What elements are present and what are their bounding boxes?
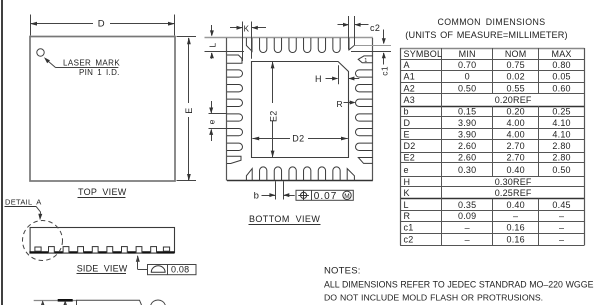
- svg-text:c1: c1: [379, 66, 389, 76]
- svg-text:MIN: MIN: [459, 49, 476, 59]
- svg-text:A2: A2: [404, 83, 415, 93]
- svg-text:LASER MARK: LASER MARK: [63, 58, 120, 67]
- svg-text:b: b: [404, 107, 409, 117]
- label R with leader arrow: [337, 99, 356, 109]
- svg-text:MAX: MAX: [552, 49, 572, 59]
- detail A section arrow 2: [63, 300, 67, 305]
- svg-text:2.60: 2.60: [458, 141, 476, 151]
- svg-text:4.00: 4.00: [506, 129, 524, 139]
- svg-text:0.75: 0.75: [506, 60, 524, 70]
- dimension L arrows: [210, 25, 214, 59]
- svg-text:4.10: 4.10: [552, 129, 570, 139]
- svg-text:b: b: [254, 191, 259, 202]
- svg-text:0.55: 0.55: [506, 83, 524, 93]
- laser mark circle (pin 1 indicator): [37, 49, 44, 56]
- label c1 (rotated): [379, 66, 389, 76]
- bottom-right corner terminal (chamfered): [347, 169, 354, 181]
- svg-text:DO NOT INCLUDE MOLD FLASH OR P: DO NOT INCLUDE MOLD FLASH OR PROTRUSIONS…: [324, 293, 543, 303]
- svg-text:TOP VIEW: TOP VIEW: [78, 187, 127, 197]
- label LASER MARK: [63, 58, 120, 67]
- side view left end pad: [35, 247, 41, 251]
- side view seating plane (thick bottom line): [29, 251, 174, 253]
- svg-text:1: 1: [364, 58, 367, 64]
- svg-text:2.60: 2.60: [458, 153, 476, 163]
- svg-text:0.45: 0.45: [552, 200, 570, 210]
- svg-text:COMMON DIMENSIONS: COMMON DIMENSIONS: [437, 17, 545, 27]
- title SIDE VIEW: [77, 263, 128, 273]
- svg-text:L: L: [404, 200, 409, 210]
- exposed pad D2/E2 outline with chamfered corner: [252, 62, 349, 158]
- svg-text:0.15: 0.15: [458, 107, 476, 117]
- seating plane callout leader: [136, 255, 148, 269]
- svg-text:–: –: [465, 235, 470, 245]
- dimension c1 extension lines: [351, 46, 391, 52]
- bottom view body bottom edge: [227, 180, 373, 182]
- svg-text:0.20REF: 0.20REF: [495, 95, 532, 105]
- label E2 (rotated): [268, 110, 278, 122]
- dimension table grid: [400, 48, 584, 246]
- label b: [254, 191, 259, 202]
- svg-text:R: R: [404, 211, 411, 221]
- dimension c2 arrows: [338, 23, 369, 27]
- true position feature control frame 0.07 M: [296, 190, 353, 202]
- svg-text:4.00: 4.00: [506, 118, 524, 128]
- svg-text:ALL DIMENSIONS REFER TO JEDEC: ALL DIMENSIONS REFER TO JEDEC STANDRAD M…: [324, 280, 594, 290]
- svg-text:NOTES:: NOTES:: [324, 265, 361, 276]
- left-bottom corner terminal (chamfered): [227, 156, 241, 163]
- svg-text:D2: D2: [404, 141, 416, 151]
- dimension c2 extension lines: [349, 16, 355, 50]
- detail A section terminal outline (partial): [77, 300, 142, 305]
- notes heading: [324, 265, 361, 276]
- svg-text:0.40: 0.40: [506, 200, 524, 210]
- detail A section thick segment: [58, 299, 73, 302]
- svg-text:0.80: 0.80: [552, 60, 570, 70]
- bottom view top row terminals (6 rounded pins): [260, 38, 341, 53]
- side view package body outline: [30, 228, 174, 253]
- note line 1: [324, 280, 594, 290]
- svg-text:K: K: [404, 188, 410, 198]
- laser mark leader arrow: [44, 57, 118, 68]
- dimension b arrows: [262, 193, 295, 197]
- label PIN 1 I.D.: [79, 68, 120, 77]
- svg-text:DETAIL A: DETAIL A: [5, 197, 42, 206]
- svg-text:0.50: 0.50: [458, 83, 476, 93]
- svg-text:e: e: [207, 119, 217, 124]
- svg-text:0.05: 0.05: [552, 72, 570, 82]
- bottom view body right edge: [372, 38, 374, 181]
- drawing frame left border: [1, 0, 3, 305]
- dimension D extension lines: [31, 15, 175, 36]
- svg-text:SIDE VIEW: SIDE VIEW: [77, 263, 128, 273]
- dimension table cell text: [404, 49, 572, 245]
- svg-text:2.80: 2.80: [552, 141, 570, 151]
- svg-text:0.16: 0.16: [506, 223, 524, 233]
- dimension e arrows: [209, 101, 213, 141]
- svg-text:0.02: 0.02: [506, 72, 524, 82]
- bottom-left corner terminal (chamfered): [246, 169, 252, 181]
- svg-text:A1: A1: [404, 72, 415, 82]
- svg-text:0.07: 0.07: [314, 191, 337, 202]
- label D: [98, 19, 105, 30]
- dimension b extension lines: [276, 181, 284, 199]
- side view right end pad: [163, 247, 169, 251]
- svg-text:BOTTOM VIEW: BOTTOM VIEW: [249, 214, 320, 224]
- svg-text:0.25: 0.25: [552, 107, 570, 117]
- svg-text:0.25REF: 0.25REF: [495, 188, 532, 198]
- svg-text:c1: c1: [404, 223, 414, 233]
- label D2: [292, 133, 304, 143]
- table subtitle units: [405, 30, 567, 40]
- svg-text:E: E: [184, 107, 194, 113]
- svg-text:D: D: [404, 118, 411, 128]
- dimension c1 arrows: [382, 30, 386, 65]
- svg-text:c2: c2: [370, 23, 380, 33]
- svg-text:c2: c2: [404, 235, 414, 245]
- svg-text:0.30REF: 0.30REF: [495, 177, 532, 187]
- label K: [244, 24, 250, 33]
- svg-text:E: E: [404, 129, 410, 139]
- label L (rotated): [208, 43, 218, 48]
- svg-text:0.60: 0.60: [552, 83, 570, 93]
- label e (rotated): [207, 119, 217, 124]
- detail A section arrow 1: [41, 300, 45, 305]
- bottom view bottom row terminals (6 rounded pins): [260, 167, 341, 181]
- svg-text:0.09: 0.09: [458, 211, 476, 221]
- svg-text:0.40: 0.40: [506, 165, 524, 175]
- bottom view left column terminals (6 rounded pins): [227, 70, 243, 151]
- label E (rotated): [184, 107, 194, 113]
- svg-text:3.90: 3.90: [458, 129, 476, 139]
- dimension H arrows: [326, 77, 360, 81]
- svg-text:PIN 1 I.D.: PIN 1 I.D.: [79, 68, 120, 77]
- title TOP VIEW: [78, 187, 127, 198]
- svg-text:4.10: 4.10: [552, 118, 570, 128]
- svg-text:–: –: [559, 223, 564, 233]
- svg-text:e: e: [404, 165, 409, 175]
- side view bottom terminals (8 pins): [49, 247, 157, 253]
- svg-text:2.70: 2.70: [506, 141, 524, 151]
- svg-text:–: –: [513, 211, 518, 221]
- dimension D2 line: [252, 137, 348, 141]
- svg-text:L: L: [208, 43, 218, 48]
- svg-text:NOM: NOM: [505, 49, 527, 59]
- dimension D line: [30, 22, 175, 26]
- svg-text:2.80: 2.80: [552, 153, 570, 163]
- svg-text:2.70: 2.70: [506, 153, 524, 163]
- dimension e extension lines: [209, 114, 228, 129]
- svg-text:–: –: [559, 211, 564, 221]
- dimension K arrows: [230, 26, 266, 30]
- svg-text:A3: A3: [404, 95, 415, 105]
- svg-text:D: D: [98, 19, 105, 30]
- svg-text:E2: E2: [404, 153, 415, 163]
- svg-text:0.08: 0.08: [171, 265, 189, 275]
- top-right corner terminal (chamfered): [349, 38, 355, 50]
- top view package body outline: [30, 37, 175, 182]
- svg-text:H: H: [404, 177, 411, 187]
- label DETAIL A with leader: [5, 197, 43, 220]
- svg-text:H: H: [315, 74, 322, 84]
- bottom view body top edge: [205, 37, 373, 39]
- svg-text:K: K: [244, 24, 250, 33]
- svg-text:0.70: 0.70: [458, 60, 476, 70]
- left-top corner terminal (chamfered): [227, 55, 242, 63]
- svg-text:0.50: 0.50: [552, 165, 570, 175]
- dimension L extension lines: [205, 51, 245, 53]
- right-bottom corner terminal (chamfered): [358, 158, 373, 164]
- svg-text:3.90: 3.90: [458, 118, 476, 128]
- svg-text:–: –: [559, 235, 564, 245]
- svg-text:A: A: [404, 60, 410, 70]
- note line 2: [324, 293, 543, 303]
- top-left corner terminal (chamfered): [246, 38, 252, 51]
- dimension E extension lines: [177, 37, 197, 181]
- detail A section datum line (partial): [34, 300, 78, 302]
- svg-text:E2: E2: [268, 110, 278, 122]
- title BOTTOM VIEW: [249, 214, 321, 225]
- bottom view right column terminals (6 rounded pins): [356, 70, 373, 151]
- svg-text:(UNITS OF MEASURE=MILLIMETER): (UNITS OF MEASURE=MILLIMETER): [405, 30, 567, 40]
- svg-text:SYMBOL: SYMBOL: [404, 49, 443, 59]
- detail A dashed circle: [23, 221, 63, 261]
- svg-text:0.30: 0.30: [458, 165, 476, 175]
- svg-text:0.20: 0.20: [506, 107, 524, 117]
- bottom view body left edge: [226, 38, 228, 181]
- svg-text:M: M: [344, 193, 349, 200]
- svg-text:0: 0: [465, 72, 470, 82]
- dimension E2 line: [271, 61, 275, 157]
- svg-text:R: R: [337, 99, 343, 109]
- dimension H extension line: [338, 65, 340, 84]
- svg-text:D2: D2: [292, 133, 304, 143]
- svg-text:0.16: 0.16: [506, 235, 524, 245]
- label c2: [370, 23, 380, 33]
- label H: [315, 74, 322, 84]
- svg-text:–: –: [465, 223, 470, 233]
- detail A section radius arc (partial): [151, 300, 166, 305]
- pin 1 terminal (pentagon with 1 marking): [358, 56, 373, 64]
- dimension E line: [187, 37, 191, 181]
- seating plane callout frame 0.08: [148, 264, 197, 275]
- dimension K extension lines: [243, 22, 252, 62]
- svg-text:0.35: 0.35: [458, 200, 476, 210]
- table title COMMON DIMENSIONS: [437, 17, 545, 27]
